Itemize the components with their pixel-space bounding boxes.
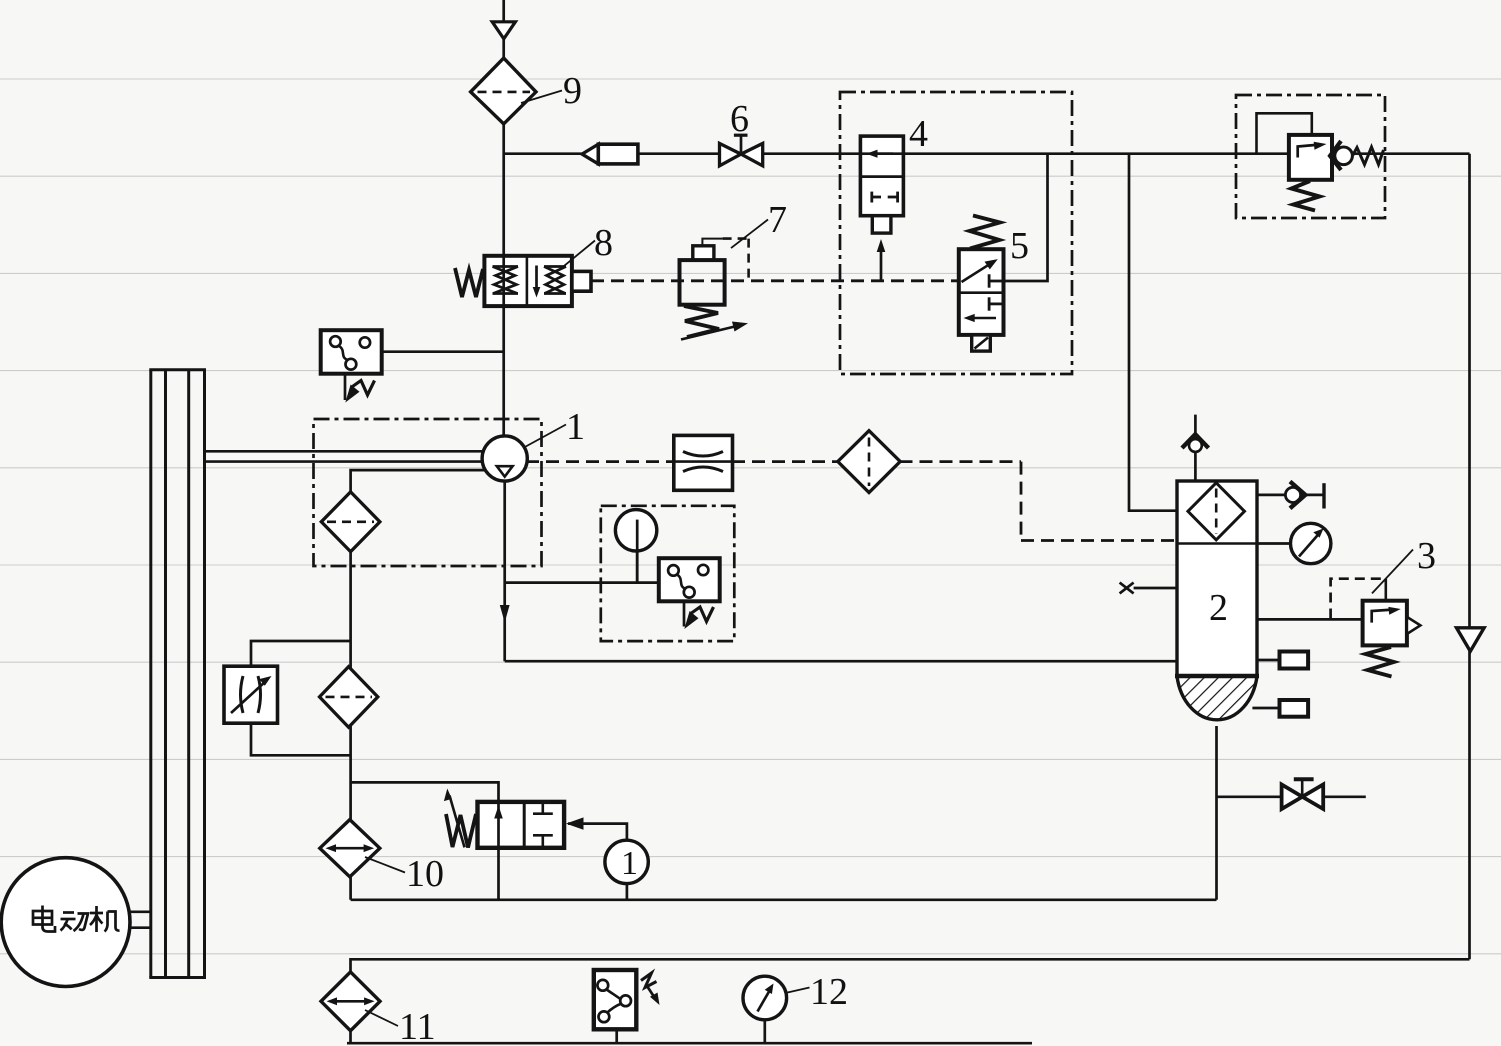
gauge 12 [743,976,787,1020]
svg-text:4: 4 [909,113,928,155]
plugged port X on tank left [1120,583,1134,594]
wire: pump outlet down [503,480,506,662]
pump 1 [482,436,527,481]
heater port 1 [1280,652,1309,669]
valve 8 (two-chamber pilot valve) [455,256,591,306]
filter 9 (diamond) [471,58,536,124]
valve 7 remote pilot hook (dashed) [723,239,749,281]
shut-off valve 6 [720,135,763,166]
quick coupling 10 (diamond with arrows) [320,820,380,877]
svg-text:11: 11 [399,1006,436,1046]
wire: port block 2 link [1252,707,1279,710]
wire: left column vertical x=350.6 [349,551,352,900]
wire: pump suction from filter [351,470,499,492]
filter (left column, with bypass) [320,667,378,728]
wire: gauge 1 pilot line [568,824,627,841]
pressure switch (upper, near pump) [321,330,382,402]
wire: drive shaft to pump (double line) [206,451,486,461]
unit 1 boundary (dash-dot box) [314,419,542,566]
label 1 [523,406,585,448]
svg-text:8: 8 [594,222,613,264]
label 12 [788,971,849,1013]
wire: branch to relief valve 10-unit [351,782,499,899]
wire: return rail y=900 [351,898,1217,901]
svg-text:10: 10 [406,853,444,895]
svg-text:3: 3 [1417,535,1436,577]
wire: tank feed from main line [1129,154,1177,511]
wire: line to tank y=661 [505,660,1177,663]
motor label 电动机 (drawn strokes) [33,906,120,933]
wire: main pressure line y=154 [504,152,1470,155]
svg-text:7: 7 [768,199,787,241]
wire: check valve line at tank top right [1257,494,1324,497]
wire: tank bottom vertical [1215,726,1218,900]
electric motor [1,858,130,987]
gauge unit boundary (dash-dot box) [601,506,735,641]
wire: plugged port stem [1134,587,1177,590]
valve 5 (two position valve with spring) [959,216,1004,352]
svg-text:1: 1 [621,845,638,882]
wire: gauge 12 stem [763,1020,766,1043]
wire: motor shaft [129,912,151,928]
label 11 [365,1006,436,1046]
svg-text:1: 1 [566,406,585,448]
flow triangle on far right line [1457,628,1485,652]
label 8 [561,222,613,268]
adjustable throttle (pilot line) [674,435,733,490]
wire: drain branch [1217,795,1366,798]
filter (inside unit 1) [321,492,380,552]
label 10 [365,853,444,895]
air inlet triangle (top) [492,22,515,39]
quick coupling 11 (diamond with arrows) [321,972,380,1031]
pilot dashed line from pump outlet [526,462,1177,541]
filter (pilot line, rotated) [838,431,900,493]
muffler / check nozzle on main line [582,144,638,164]
wire: diamond 11 lower stem [349,1031,352,1044]
wire: top inlet vertical [502,0,505,58]
relief valve unit above gauge 1 [444,789,584,848]
pressure switch (gauge unit) [659,558,720,629]
wire: branch to gauge unit [505,581,659,584]
wire: pressure switch to main vertical [382,350,504,353]
wire: vent stem on tank top [1194,415,1197,481]
drain shut-off valve [1282,779,1324,809]
vent breather on tank top [1182,434,1209,452]
wire: tank to valve 3 [1257,618,1363,621]
wire: port block 1 link [1257,659,1280,662]
svg-text:2: 2 [1209,587,1228,629]
wire: far right vertical [1468,154,1471,960]
svg-text:5: 5 [1010,225,1029,267]
flow arrow on pump outlet [500,605,510,623]
pressure gauge on tank [1291,523,1331,563]
wire: valve 5 outlet to main line [1004,154,1048,281]
relief valve (top right unit) [1257,113,1384,210]
valve 3 (pressure regulator) [1331,579,1421,677]
pilot dashed line from valve 8 to valve 5 [591,279,959,282]
thermometer (gauge unit) [615,510,656,583]
valves 4-5 unit boundary (dash-dot box) [840,92,1072,374]
svg-text:6: 6 [730,98,749,140]
wire: main vertical line x=504 from filter 9 down to pump [502,124,505,437]
wire: bottom rail y=1043 [347,1042,1032,1045]
pressure switch (bottom rail) [594,970,660,1029]
label 9 [521,70,582,112]
label 7 [731,199,787,248]
drive / heat exchanger column [149,370,206,978]
valve 4 (pilot operated 2-port) [860,136,903,281]
wire: throttle bypass loop [251,641,351,666]
dryer tank 2 [1175,481,1259,720]
relief valve unit boundary (dash-dot box) [1236,95,1385,218]
svg-text:9: 9 [563,70,582,112]
heater port 2 [1280,700,1309,717]
wire: pressure switch 3 stem [615,1029,618,1043]
valve 7 (pilot pressure valve) [680,239,749,340]
check valve on tank right top [1285,482,1305,509]
wire: bottom rail y=959 [351,959,1470,972]
bypass throttle (left column) [224,666,278,723]
label 3 [1372,535,1436,593]
wire: thermometer stem [636,520,639,583]
svg-text:12: 12 [810,971,848,1013]
wire: gauge 1 to return rail [626,884,629,900]
gauge 1 (circle with 1) [605,840,648,883]
wire: tank gauge link [1257,542,1291,545]
